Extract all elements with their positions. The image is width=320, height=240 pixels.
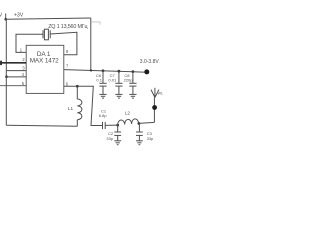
crystal ZQ1: [43, 29, 50, 40]
junction dot rail drop: [90, 69, 92, 71]
crystal ZQ1 left wire: [16, 34, 43, 52]
wire rail drop: [90, 18, 92, 70]
inductor L1: [77, 86, 82, 126]
capacitor C2: [114, 125, 121, 140]
svg-text:L1: L1: [68, 106, 74, 111]
ground under C8: [129, 94, 136, 98]
antenna W1: [151, 88, 159, 98]
wire pin 6 output: [64, 86, 103, 125]
ground under C2: [114, 141, 121, 145]
IC DA1 MAX1472 box: [26, 45, 64, 93]
svg-text:MAX 1472: MAX 1472: [30, 58, 59, 65]
svg-text:ZQ 1 13,560 МГц: ZQ 1 13,560 МГц: [48, 24, 87, 30]
wire bottom rail: [6, 125, 77, 126]
capacitor C3: [136, 124, 143, 141]
junction dot C2 tap: [116, 124, 119, 127]
supply terminal dot: [144, 69, 149, 74]
ground under C3: [136, 141, 143, 145]
capacitor C8: [129, 72, 136, 95]
svg-text:0.1: 0.1: [96, 77, 102, 82]
junction dot C7: [118, 70, 121, 73]
antenna terminal dot: [152, 105, 157, 110]
svg-text:3.0-3.8V: 3.0-3.8V: [140, 59, 160, 65]
capacitor C1 (series): [103, 122, 106, 129]
junction dot L1 tap: [76, 85, 79, 88]
junction dot pin 4 tap: [5, 75, 8, 78]
DATA input terminal blob: [0, 61, 2, 65]
capacitor C7: [115, 71, 122, 94]
svg-text:0.01: 0.01: [108, 77, 117, 82]
wire antenna riser: [153, 98, 155, 123]
ground under C7: [115, 94, 122, 98]
crystal ZQ1 right wire: [50, 32, 77, 55]
svg-text:W1: W1: [158, 91, 163, 95]
capacitor C6: [99, 71, 106, 94]
wire left supply vertical: [5, 19, 7, 125]
svg-text:220p: 220p: [124, 77, 134, 82]
wire L2 to antenna riser: [139, 122, 155, 123]
inductor L2: [118, 119, 139, 125]
wire VDD rail pin 7: [64, 70, 147, 73]
wire C1 to L2: [105, 124, 118, 126]
wire hook stub: [91, 22, 100, 25]
svg-text:+3V: +3V: [14, 13, 24, 19]
ground under C6: [99, 94, 106, 98]
wire top +3V rail: [6, 18, 91, 19]
svg-text:33p: 33p: [147, 136, 154, 141]
wire pin 4: [6, 76, 26, 78]
junction dot C8: [132, 70, 135, 73]
junction dot C6: [102, 69, 105, 72]
wire DATA input pin 2 (thick): [0, 62, 26, 64]
svg-text:L2: L2: [125, 110, 131, 115]
node A junction dot: [4, 18, 7, 21]
svg-text:6.8p: 6.8p: [99, 113, 108, 118]
wire pin 3: [6, 70, 26, 72]
wire pin 5: [0, 85, 26, 87]
supply entry stub top-left: [5, 14, 7, 20]
svg-text:33p: 33p: [106, 136, 113, 141]
junction dot C3 tap: [138, 122, 141, 125]
